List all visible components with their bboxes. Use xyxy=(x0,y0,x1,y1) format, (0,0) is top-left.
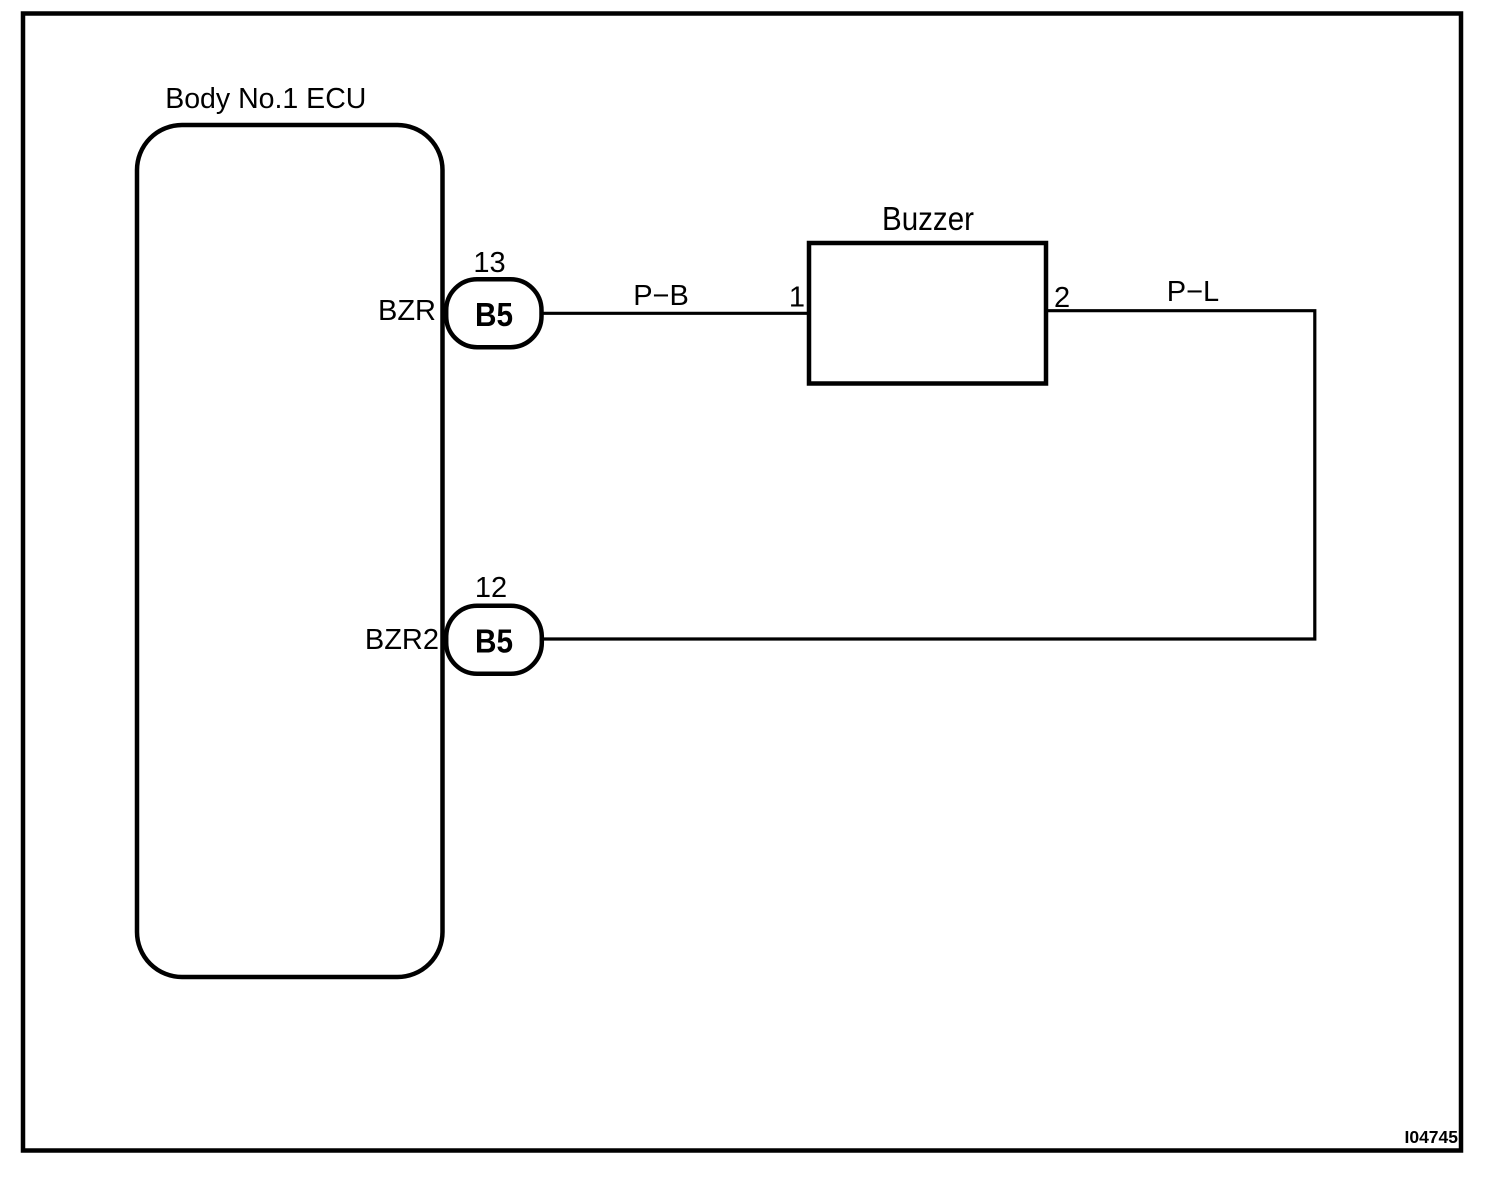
wire label P-B xyxy=(633,280,689,312)
wire label P-L xyxy=(1167,276,1219,308)
label Buzzer xyxy=(882,200,974,237)
ECU block Body No.1 ECU xyxy=(137,125,443,977)
connector B5 pin 13 (BZR) xyxy=(446,279,541,347)
svg-text:13: 13 xyxy=(473,247,505,279)
buzzer pin 2 xyxy=(1054,282,1070,314)
connector B5 pin 12 (BZR2) xyxy=(446,606,542,674)
label Body No.1 ECU xyxy=(165,83,366,115)
svg-text:Body No.1 ECU: Body No.1 ECU xyxy=(165,83,366,115)
svg-text:2: 2 xyxy=(1054,282,1070,314)
svg-text:1: 1 xyxy=(789,282,805,314)
svg-text:B5: B5 xyxy=(475,296,513,333)
svg-text:B5: B5 xyxy=(475,623,513,660)
pin number 13 xyxy=(473,247,505,279)
svg-text:12: 12 xyxy=(475,572,507,604)
svg-text:P−L: P−L xyxy=(1167,276,1219,308)
svg-text:Buzzer: Buzzer xyxy=(882,200,974,237)
buzzer component box xyxy=(809,243,1046,384)
wire P-L from buzzer pin 2 to connector B5 pin 12 xyxy=(544,311,1315,639)
wire P-B from connector B5 pin 13 to buzzer pin 1 xyxy=(542,312,811,315)
svg-text:BZR2: BZR2 xyxy=(365,624,439,656)
svg-text:BZR: BZR xyxy=(378,295,436,327)
pin label BZR xyxy=(378,295,436,327)
pin label BZR2 xyxy=(365,624,439,656)
pin number 12 xyxy=(475,572,507,604)
figure number I04745 xyxy=(1404,1127,1458,1147)
svg-text:I04745: I04745 xyxy=(1404,1127,1458,1147)
buzzer pin 1 xyxy=(789,282,805,314)
svg-text:P−B: P−B xyxy=(633,280,689,312)
